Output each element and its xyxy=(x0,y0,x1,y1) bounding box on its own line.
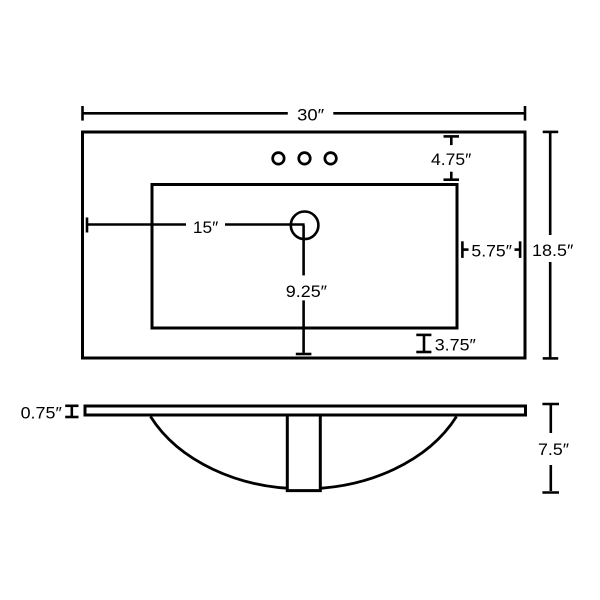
dimension 30" line right segment xyxy=(333,112,525,115)
dimension 7.5" top tick bar xyxy=(542,403,559,406)
dimension 0.75" stem xyxy=(71,406,74,417)
dimension 9.25" bottom tick bar xyxy=(296,353,312,356)
dimension 15" line right segment xyxy=(225,223,305,226)
dimension 7.5" vertical line lower segment xyxy=(549,465,552,491)
dimension 7.5" vertical line upper segment xyxy=(549,404,552,433)
dimension 30" left end tick xyxy=(81,106,84,121)
svg-text:0.75″: 0.75″ xyxy=(21,405,62,423)
svg-text:18.5″: 18.5″ xyxy=(532,242,573,260)
dimension 5.75" left stub xyxy=(462,248,468,251)
center faucet hole circle xyxy=(291,212,319,240)
dimension 18.5" vertical line upper segment xyxy=(549,132,552,235)
dimension 15" left end tick xyxy=(86,218,89,233)
dimension 7.5" bottom tick bar xyxy=(542,491,559,494)
dimension 3.75" stem xyxy=(423,335,426,352)
faucet hole left xyxy=(273,153,285,165)
outer countertop rectangle (top view) xyxy=(83,132,526,358)
dimension 3.75" top tick bar xyxy=(416,334,431,337)
dimension 4.75" bottom stem xyxy=(450,172,453,180)
dimension 30" right end tick xyxy=(524,106,527,121)
dimension 18.5" bottom tick bar xyxy=(543,357,559,360)
svg-text:7.5″: 7.5″ xyxy=(538,441,569,459)
dimension 30" line left segment xyxy=(83,112,288,115)
svg-text:9.25″: 9.25″ xyxy=(286,283,327,301)
dimension 5.75" right stub xyxy=(515,248,521,251)
dimension 9.25" vertical line lower segment xyxy=(302,300,305,353)
dimension 4.75" top stem xyxy=(450,136,453,145)
dimension 5.75" left tick xyxy=(461,241,464,258)
dimension 4.75" top tick bar xyxy=(444,135,460,138)
faucet hole center xyxy=(299,153,311,165)
countertop slab (side view) xyxy=(85,406,526,415)
dimension 0.75" top tick bar xyxy=(65,404,78,407)
svg-text:15″: 15″ xyxy=(193,219,219,237)
dimension 4.75" bottom tick bar xyxy=(444,178,460,181)
dimension 5.75" right tick xyxy=(519,241,522,258)
dimension 18.5" vertical line lower segment xyxy=(549,262,552,358)
svg-text:3.75″: 3.75″ xyxy=(435,336,476,354)
dimension 18.5" top tick bar xyxy=(543,131,559,134)
svg-text:30″: 30″ xyxy=(297,107,324,125)
svg-text:5.75″: 5.75″ xyxy=(471,243,512,261)
dimension 3.75" bottom tick bar xyxy=(416,351,431,354)
svg-text:4.75″: 4.75″ xyxy=(431,151,471,169)
dimension 0.75" bottom tick bar xyxy=(65,416,78,419)
dimension 9.25" vertical line upper segment xyxy=(302,225,305,275)
drain stub (side view) xyxy=(287,413,320,491)
basin bowl profile (side view) xyxy=(151,417,457,489)
dimension 15" line left segment xyxy=(87,223,186,226)
inner basin rectangle (top view) xyxy=(152,185,457,329)
faucet hole right xyxy=(325,153,337,165)
